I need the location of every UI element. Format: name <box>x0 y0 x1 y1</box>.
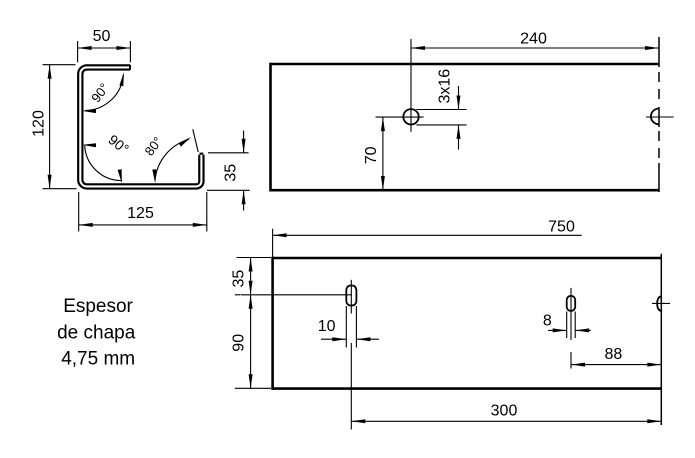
half hole at broken edge <box>651 108 659 124</box>
angle arc 90 top <box>85 75 124 111</box>
svg-text:3x16: 3x16 <box>437 69 454 104</box>
svg-text:Espesor: Espesor <box>63 296 133 317</box>
dimension 8 <box>548 312 591 339</box>
svg-text:de chapa: de chapa <box>57 322 136 343</box>
svg-text:4,75 mm: 4,75 mm <box>61 349 135 370</box>
svg-text:50: 50 <box>93 28 111 45</box>
thin construction line (lip direction) <box>193 129 198 152</box>
svg-text:120: 120 <box>31 110 48 137</box>
dimension 125 <box>79 192 207 232</box>
flange end cap <box>129 65 131 70</box>
dimension 3x16 <box>416 86 466 150</box>
angle arc 90 bottom <box>85 145 122 180</box>
dimension 750 (truncated, underlined value) <box>272 229 274 259</box>
svg-text:88: 88 <box>605 346 623 363</box>
dimension 50 <box>78 41 131 62</box>
slot 1 centrelines <box>350 280 352 314</box>
hole dia 16 <box>403 109 418 124</box>
svg-text:70: 70 <box>363 146 380 164</box>
hole centrelines <box>376 116 424 118</box>
svg-text:10: 10 <box>318 318 336 335</box>
lip tip cap <box>200 153 204 155</box>
svg-text:35: 35 <box>230 270 247 288</box>
svg-text:300: 300 <box>491 402 518 419</box>
dimension 35 (bottom plate) <box>235 258 271 295</box>
bottom plate right edge <box>660 254 662 425</box>
svg-text:125: 125 <box>127 205 154 222</box>
half slot at right edge <box>657 296 661 311</box>
svg-text:240: 240 <box>520 31 547 48</box>
bottom plate outline <box>273 257 662 390</box>
svg-text:8: 8 <box>543 313 552 330</box>
svg-text:750: 750 <box>548 218 575 235</box>
slot 2 centrelines <box>570 288 572 340</box>
svg-text:35: 35 <box>223 164 240 182</box>
profile sheet cross-section (C-channel) <box>80 65 203 186</box>
dimension 120 <box>43 65 77 189</box>
dimension 90 <box>250 295 252 389</box>
dimension 88 <box>571 364 661 366</box>
top plate broken right edge (dashed) <box>658 37 660 192</box>
slot 2 (8 x 15) <box>567 296 576 311</box>
dimension 240 <box>411 47 659 49</box>
angle arc 80 <box>155 139 189 180</box>
dimension 70 <box>382 117 384 190</box>
slot 1 (10 x 20) <box>346 286 356 306</box>
dimension 35 (lip height) <box>207 131 250 211</box>
top plate outline <box>271 63 660 192</box>
dimension 300 <box>351 420 661 422</box>
dimension 10 <box>321 306 379 348</box>
svg-text:90: 90 <box>230 334 247 352</box>
